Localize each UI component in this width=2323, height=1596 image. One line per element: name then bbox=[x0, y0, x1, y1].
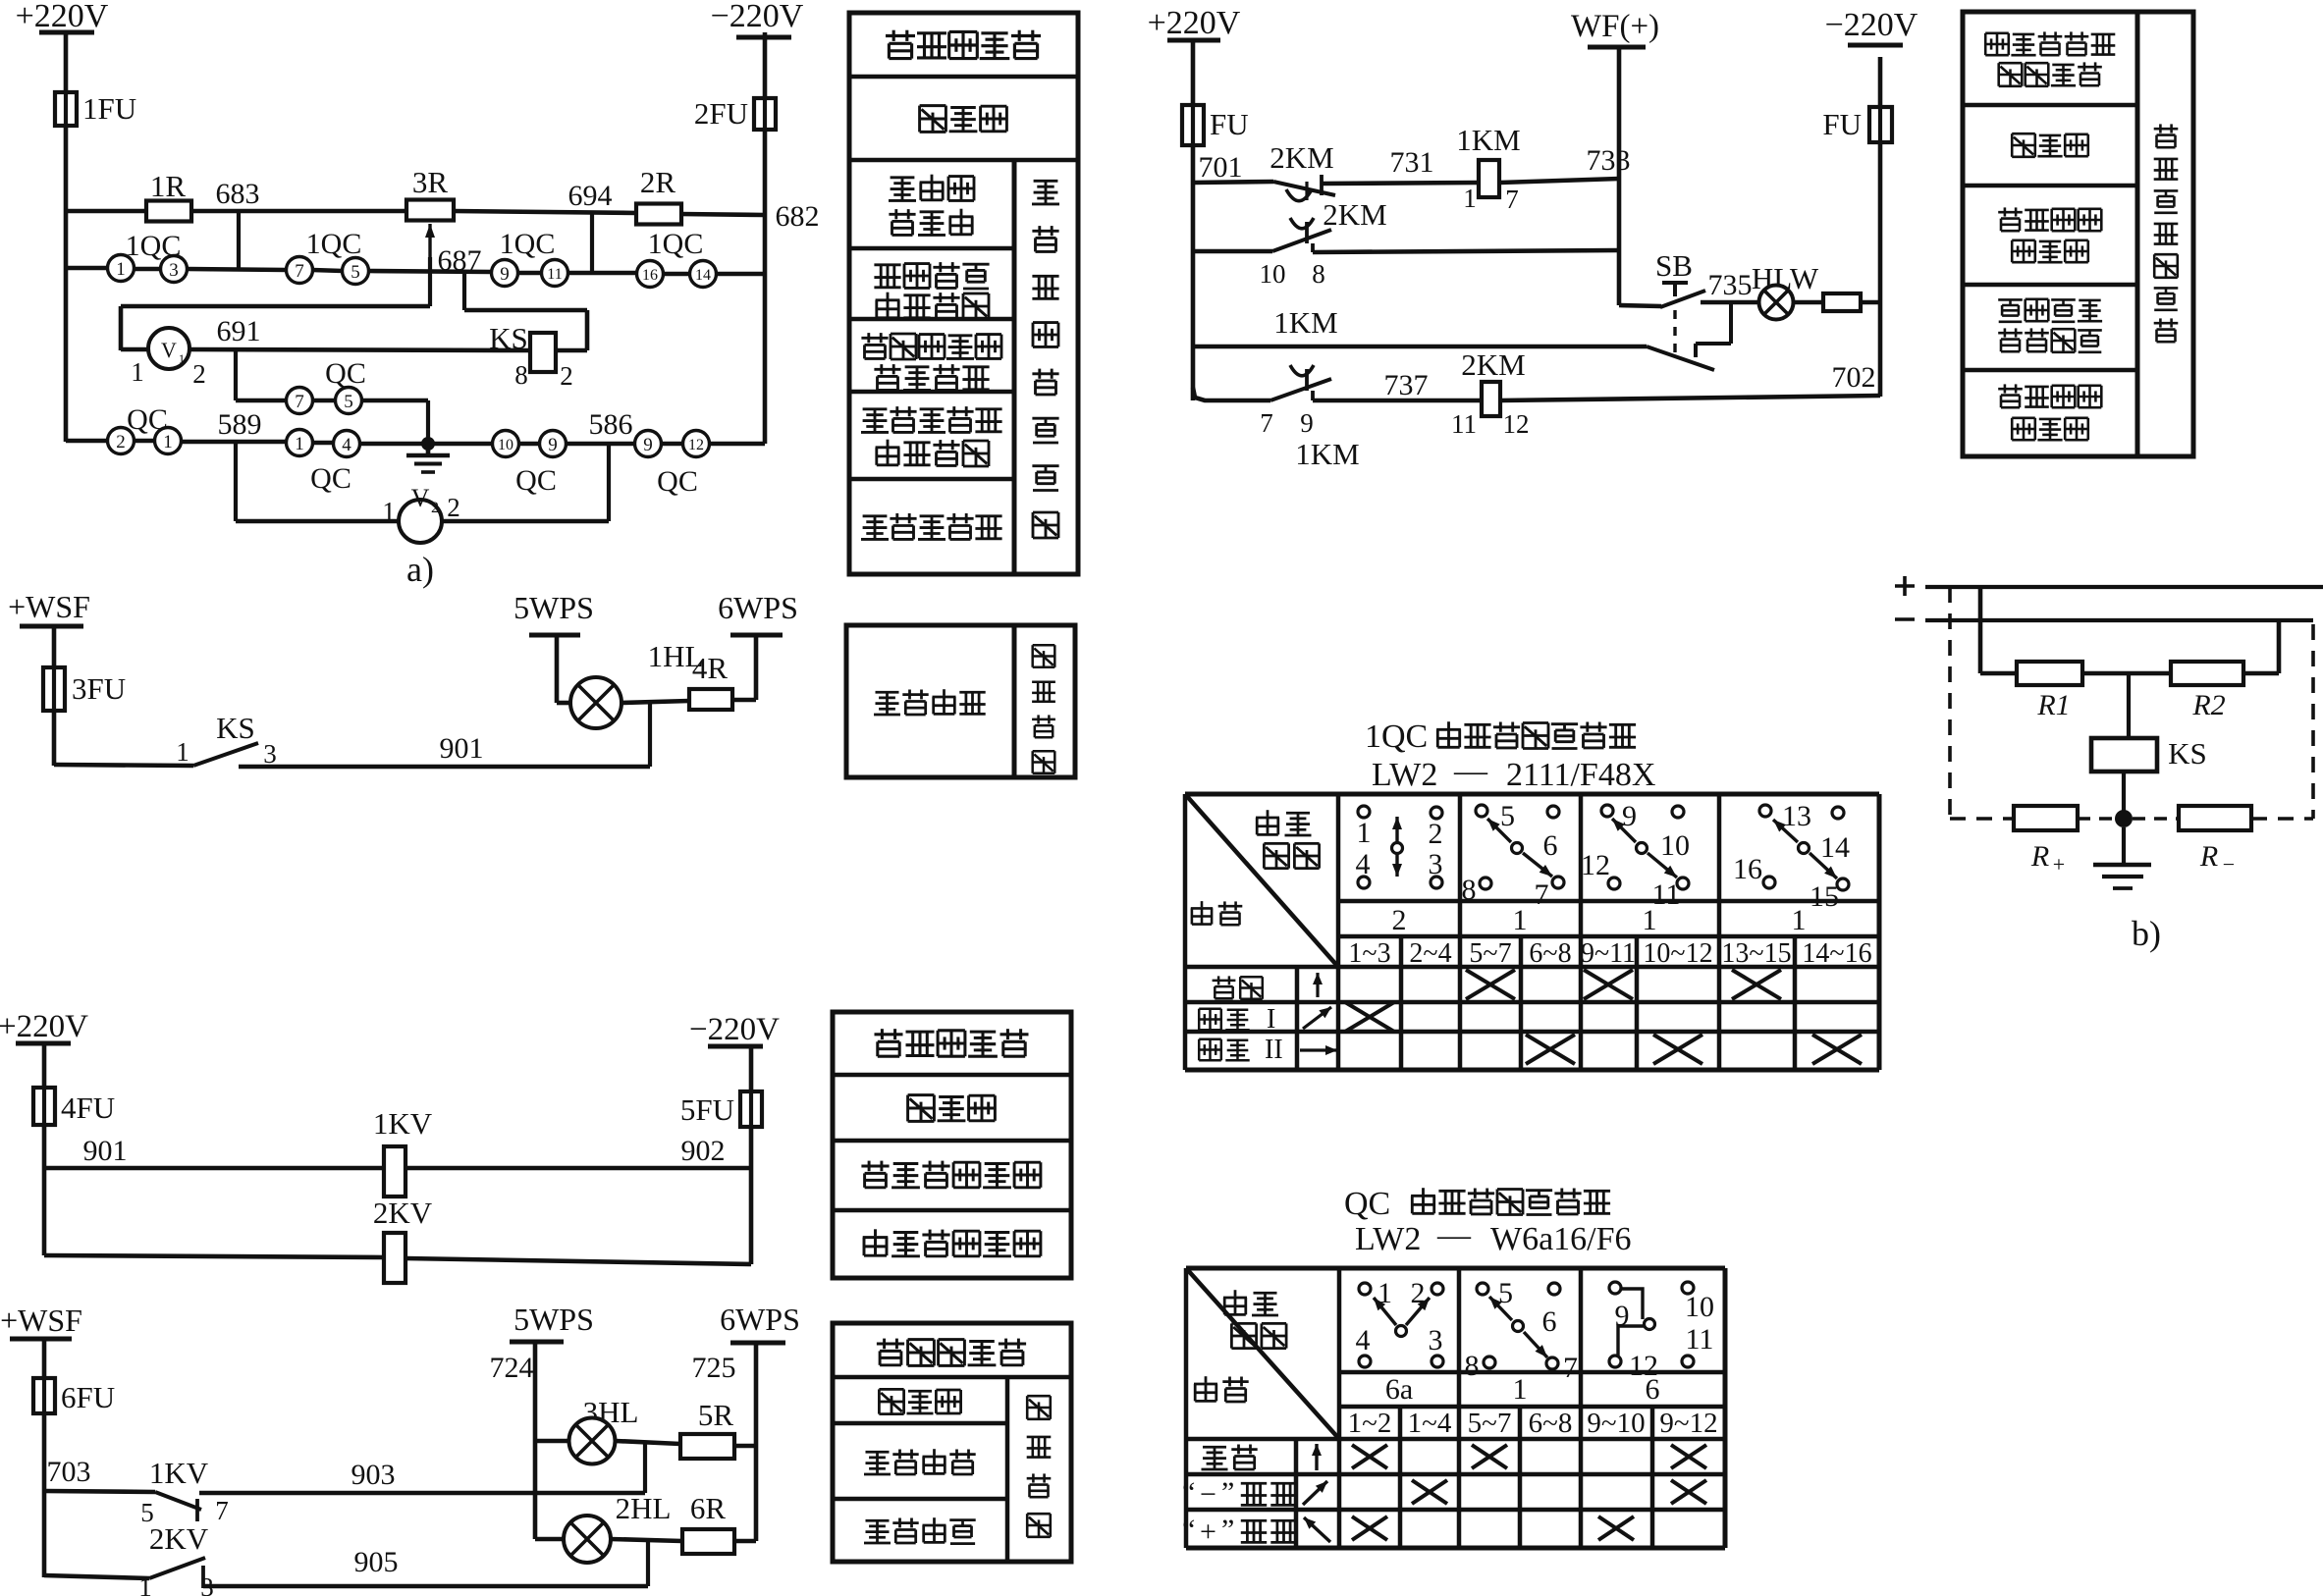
svg-text:1~2: 1~2 bbox=[1348, 1408, 1392, 1439]
wire 691 to QC contact 7 bbox=[236, 350, 287, 400]
node +220V bus (KV circuit) bbox=[0, 1009, 88, 1044]
switch contact 1QC 7 bbox=[287, 257, 313, 284]
svg-text:3FU: 3FU bbox=[72, 671, 126, 706]
svg-text:16: 16 bbox=[1733, 853, 1762, 885]
contact SB lower (NC) bbox=[1647, 346, 1714, 370]
wire rail 2KV bbox=[44, 1255, 751, 1264]
svg-text:1: 1 bbox=[1643, 904, 1657, 936]
contact 1KM (7-9) bbox=[1260, 365, 1359, 471]
svg-text:1: 1 bbox=[1357, 817, 1372, 849]
relay KS (circuit b) bbox=[2091, 736, 2207, 771]
node 586 bbox=[589, 408, 633, 521]
wire 903 junction vertical (3HL) bbox=[643, 1443, 647, 1493]
svg-text:11: 11 bbox=[1686, 1323, 1714, 1356]
svg-text:2~4: 2~4 bbox=[1409, 938, 1451, 969]
svg-text:SB: SB bbox=[1655, 248, 1693, 283]
table: DC main bus / undervoltage / overvoltage legend bbox=[833, 1012, 1071, 1278]
contact 2KM (NO, rail 701) bbox=[1270, 140, 1335, 201]
svg-text:5: 5 bbox=[1500, 800, 1515, 832]
table: DC panel flashing device legend bbox=[1963, 12, 2193, 456]
svg-text:KS: KS bbox=[2168, 736, 2207, 771]
svg-text:LW2: LW2 bbox=[1372, 757, 1437, 793]
wire rail 5 (7-9-737-702 bottom) bbox=[1193, 388, 1880, 400]
voltmeter V1 bbox=[131, 328, 206, 389]
node 687 bbox=[438, 244, 482, 277]
svg-text:5~7: 5~7 bbox=[1468, 1408, 1512, 1439]
svg-text:2KV: 2KV bbox=[373, 1196, 433, 1230]
switch contact QC 10 bbox=[493, 431, 519, 457]
svg-text:+: + bbox=[2053, 852, 2065, 877]
svg-text:13: 13 bbox=[1782, 800, 1811, 832]
wire rail 683-694-682 (circuit a top rail) bbox=[66, 211, 765, 215]
svg-text:9~12: 9~12 bbox=[1659, 1408, 1717, 1439]
svg-text:1: 1 bbox=[138, 1572, 152, 1596]
wire rail 905 bbox=[44, 1546, 648, 1586]
resistor 1R bbox=[146, 169, 191, 222]
node 6WPS bus (upper) bbox=[718, 590, 798, 635]
svg-text:10: 10 bbox=[1260, 259, 1286, 289]
svg-text:LW2: LW2 bbox=[1355, 1221, 1421, 1257]
svg-text:—: — bbox=[1436, 1217, 1472, 1253]
svg-text:5: 5 bbox=[344, 392, 353, 412]
wire rail 701-731-733 bbox=[1193, 179, 1619, 184]
svg-text:1: 1 bbox=[179, 351, 186, 366]
svg-text:7: 7 bbox=[215, 1496, 229, 1525]
wire +220V vertical feeder (circuit a) bbox=[64, 32, 69, 442]
wire 6R to 725 vertical bbox=[734, 1539, 756, 1544]
svg-text:9: 9 bbox=[1300, 408, 1314, 438]
svg-text:5R: 5R bbox=[698, 1398, 734, 1432]
svg-text:3: 3 bbox=[1429, 848, 1443, 880]
contact group 13-15 diagram (1QC table) bbox=[1733, 800, 1850, 913]
svg-text:12: 12 bbox=[1581, 849, 1610, 881]
table: 1QC changeover switch worktable bbox=[1185, 718, 1879, 1070]
svg-text:6~8: 6~8 bbox=[1529, 1408, 1573, 1439]
table: signal bus / voltage low / voltage high legend bbox=[833, 1323, 1071, 1562]
svg-text:W6a16/F6: W6a16/F6 bbox=[1490, 1221, 1632, 1257]
relay coil 2KM (rail 737) bbox=[1451, 347, 1530, 439]
wire 3HL row bbox=[535, 1441, 680, 1444]
contact group 1-4/2-3 diagram (1QC table) bbox=[1356, 806, 1443, 888]
svg-text:1QC: 1QC bbox=[648, 228, 704, 260]
svg-text:1KM: 1KM bbox=[1456, 123, 1520, 157]
switch contact 1QC 14 bbox=[648, 228, 717, 288]
svg-text:9: 9 bbox=[500, 264, 510, 285]
contact 2KM (10-8) bbox=[1260, 197, 1387, 289]
wire 5R to 725 vertical bbox=[734, 1444, 756, 1449]
svg-text:QC: QC bbox=[127, 403, 168, 436]
svg-text:1~3: 1~3 bbox=[1348, 938, 1390, 969]
svg-text:9~11: 9~11 bbox=[1581, 938, 1636, 969]
svg-text:1: 1 bbox=[176, 737, 189, 767]
svg-text:5WPS: 5WPS bbox=[513, 1302, 594, 1337]
signal lamp HLW bbox=[1752, 261, 1819, 320]
node - rail (circuit b) bbox=[1895, 619, 2313, 620]
svg-text:10: 10 bbox=[498, 437, 513, 453]
resistor (HLW series) bbox=[1823, 293, 1861, 311]
svg-text:6FU: 6FU bbox=[61, 1380, 115, 1414]
wire -220V vertical feeder (KV circuit) bbox=[749, 1046, 754, 1264]
svg-text:903: 903 bbox=[351, 1459, 396, 1491]
svg-text:902: 902 bbox=[681, 1135, 726, 1167]
table: bus ground - forecast signal bbox=[846, 625, 1075, 777]
wire 901 to 1HL junction bbox=[648, 703, 652, 767]
svg-text:6: 6 bbox=[1543, 829, 1558, 862]
svg-text:2R: 2R bbox=[640, 165, 676, 199]
svg-text:1: 1 bbox=[295, 434, 304, 454]
contact group 1-2 V diagram (QC table) bbox=[1356, 1277, 1444, 1367]
svg-text:−: − bbox=[2223, 852, 2235, 877]
wire rail 901-902 bbox=[44, 1166, 751, 1171]
svg-text:12: 12 bbox=[1503, 409, 1530, 439]
svg-text:14~16: 14~16 bbox=[1802, 938, 1871, 969]
node -220V bus (KV circuit) bbox=[689, 1012, 780, 1047]
contact pair subheader row (QC table) bbox=[1348, 1408, 1718, 1439]
fuse 3FU bbox=[43, 667, 126, 711]
svg-text:5: 5 bbox=[1498, 1277, 1513, 1309]
svg-text:6R: 6R bbox=[690, 1491, 727, 1525]
wire rail 2 (2KM contact 10-8) bbox=[1193, 250, 1619, 252]
svg-text:8: 8 bbox=[1465, 1350, 1480, 1382]
table: QC changeover switch worktable bbox=[1186, 1186, 1725, 1548]
svg-text:FU: FU bbox=[1210, 107, 1249, 141]
svg-text:2: 2 bbox=[560, 361, 573, 391]
svg-text:4: 4 bbox=[1356, 1324, 1371, 1357]
svg-text:V: V bbox=[161, 338, 177, 362]
contact 1KV (5-7) bbox=[140, 1456, 229, 1527]
svg-text:703: 703 bbox=[47, 1456, 91, 1488]
fuse FU (positive, flash circuit) bbox=[1182, 105, 1249, 145]
svg-text:14: 14 bbox=[695, 267, 711, 284]
svg-text:589: 589 bbox=[218, 408, 262, 441]
svg-text:3: 3 bbox=[169, 260, 179, 281]
wire 2HL row bbox=[535, 1539, 682, 1541]
svg-text:1R: 1R bbox=[150, 169, 187, 203]
svg-text:9: 9 bbox=[548, 435, 558, 455]
svg-text:1: 1 bbox=[131, 357, 144, 387]
svg-text:724: 724 bbox=[490, 1352, 534, 1384]
switch contact 1QC 9 bbox=[492, 260, 518, 287]
svg-text:1QC: 1QC bbox=[306, 228, 362, 260]
svg-text:a): a) bbox=[406, 550, 434, 589]
node -220V bus (circuit a) bbox=[711, 0, 804, 37]
switch contact QC 7 (upper) bbox=[287, 388, 313, 414]
dashed frame left (circuit b) bbox=[1948, 587, 1952, 819]
svg-text:5: 5 bbox=[351, 262, 360, 283]
svg-text:691: 691 bbox=[217, 315, 261, 347]
svg-text:R: R bbox=[2199, 840, 2218, 873]
svg-text:3: 3 bbox=[200, 1572, 214, 1596]
svg-text:”: ” bbox=[1221, 1476, 1234, 1509]
ground (circuit b) bbox=[2093, 827, 2151, 888]
svg-text:4: 4 bbox=[1356, 848, 1371, 880]
relay coil 2KV bbox=[373, 1196, 433, 1283]
svg-text:2KM: 2KM bbox=[1323, 197, 1386, 232]
svg-text:+220V: +220V bbox=[1148, 5, 1241, 41]
svg-text:I: I bbox=[1267, 1004, 1275, 1035]
wire +WSF vertical feeder (signal circuit) bbox=[42, 1339, 47, 1577]
voltmeter V2 bbox=[382, 484, 460, 543]
switch contact 1QC 5 bbox=[306, 228, 369, 285]
svg-text:FU: FU bbox=[1822, 107, 1862, 141]
switch contact QC 5 (upper) bbox=[312, 357, 366, 414]
svg-text:1: 1 bbox=[1513, 904, 1528, 936]
resistor 6R bbox=[682, 1491, 734, 1554]
relay coil 1KV bbox=[373, 1106, 433, 1197]
svg-text:9: 9 bbox=[1622, 800, 1637, 832]
switch contact QC 2 bbox=[108, 428, 135, 454]
svg-text:683: 683 bbox=[216, 178, 260, 210]
wire rail 3 (SB to HLW) bbox=[1619, 302, 1880, 306]
svg-text:687: 687 bbox=[438, 244, 482, 277]
svg-text:+WSF: +WSF bbox=[0, 1303, 82, 1338]
junction 735 step to SB lower contact bbox=[1696, 302, 1731, 357]
header labels (QC table) bbox=[1194, 1290, 1286, 1402]
svg-text:701: 701 bbox=[1199, 151, 1243, 184]
contact group 9-11 diagram (1QC table) bbox=[1581, 800, 1690, 911]
svg-text:731: 731 bbox=[1390, 146, 1434, 179]
svg-text:4FU: 4FU bbox=[61, 1091, 115, 1125]
row minus-to-ground (QC table) bbox=[1182, 1476, 1706, 1511]
svg-text:6a: 6a bbox=[1385, 1373, 1413, 1406]
table: bus insulation monitoring circuit legend bbox=[849, 13, 1078, 574]
svg-text:KS: KS bbox=[489, 321, 528, 355]
switch contact 1QC 1 bbox=[108, 255, 135, 282]
wire +220V vertical feeder (flash circuit) bbox=[1191, 40, 1196, 400]
svg-text:QC: QC bbox=[657, 465, 698, 498]
switch contact QC 12 bbox=[657, 431, 709, 499]
node + rail (circuit b) bbox=[1895, 576, 2323, 596]
svg-text:3: 3 bbox=[263, 739, 277, 769]
wire 724 vertical (5WPS feeder) bbox=[533, 1342, 538, 1539]
signal lamp 3HL bbox=[569, 1395, 639, 1464]
svg-text:−220V: −220V bbox=[1825, 7, 1918, 43]
wire R2 to - rail (circuit b) bbox=[2243, 620, 2279, 673]
svg-text:725: 725 bbox=[692, 1352, 736, 1384]
svg-text:1~4: 1~4 bbox=[1408, 1408, 1452, 1439]
svg-text:2: 2 bbox=[1392, 904, 1407, 936]
svg-text:586: 586 bbox=[589, 408, 633, 441]
contact pair subheader row (1QC table) bbox=[1348, 938, 1871, 969]
svg-text:2KM: 2KM bbox=[1461, 347, 1525, 382]
wire V2 measuring loop bbox=[236, 519, 609, 524]
node 6WPS bus (signal circuit) bbox=[720, 1302, 800, 1343]
contact 2KV (1-3) bbox=[138, 1521, 214, 1596]
signal relay KS (circuit a) bbox=[489, 321, 587, 391]
node 5WPS bus (signal circuit) bbox=[510, 1302, 594, 1342]
svg-text:WF(+): WF(+) bbox=[1571, 9, 1659, 44]
svg-text:11: 11 bbox=[547, 266, 562, 283]
svg-text:+WSF: +WSF bbox=[8, 589, 90, 624]
wire 725 vertical (6WPS feeder) bbox=[754, 1343, 759, 1541]
svg-text:682: 682 bbox=[776, 200, 820, 233]
svg-text:”: ” bbox=[1221, 1514, 1234, 1546]
svg-text:KS: KS bbox=[216, 711, 255, 745]
row measure I (1QC table) bbox=[1199, 1002, 1394, 1035]
switch contact QC 4 bbox=[310, 431, 359, 496]
wire V1 to KS (node 691) bbox=[121, 315, 530, 350]
dashed frame right (circuit b) bbox=[2311, 624, 2315, 819]
svg-text:2HL: 2HL bbox=[616, 1491, 672, 1525]
svg-text:10~12: 10~12 bbox=[1643, 938, 1712, 969]
wire 1HL to 4R bbox=[621, 701, 689, 703]
switch contact 1QC 16 bbox=[637, 261, 664, 288]
svg-text:1KM: 1KM bbox=[1273, 305, 1337, 340]
switch contact QC 9 (second) bbox=[635, 431, 662, 457]
node 589 bbox=[218, 408, 262, 521]
svg-text:16: 16 bbox=[642, 267, 658, 284]
svg-text:7: 7 bbox=[1563, 1352, 1578, 1384]
svg-text:8: 8 bbox=[1312, 259, 1325, 289]
node WF(+) bus bbox=[1571, 9, 1659, 47]
svg-text:694: 694 bbox=[568, 180, 613, 212]
svg-text:−220V: −220V bbox=[711, 0, 804, 34]
svg-text:1: 1 bbox=[382, 497, 396, 526]
svg-text:“: “ bbox=[1182, 1476, 1195, 1509]
svg-text:5~7: 5~7 bbox=[1469, 938, 1511, 969]
svg-text:737: 737 bbox=[1384, 369, 1429, 401]
svg-text:6: 6 bbox=[1646, 1373, 1660, 1406]
resistor R1 bbox=[2017, 662, 2082, 721]
wire rail 703-903 bbox=[44, 1491, 645, 1493]
wire -220V vertical feeder (circuit a) bbox=[763, 32, 768, 444]
node -220V bus (flash circuit) bbox=[1825, 7, 1918, 45]
svg-text:b): b) bbox=[2132, 914, 2161, 953]
svg-text:2111/F48X: 2111/F48X bbox=[1506, 757, 1655, 793]
contact group 5-7 diagram (QC table) bbox=[1465, 1277, 1579, 1384]
svg-text:+220V: +220V bbox=[16, 0, 109, 34]
node +WSF bus bbox=[8, 589, 90, 626]
switch contact QC 1 (second) bbox=[287, 430, 313, 456]
wire 1QC contact row (circuit a) bbox=[66, 268, 765, 274]
node +WSF bus (signal circuit) bbox=[0, 1303, 82, 1339]
svg-text:6: 6 bbox=[1542, 1305, 1557, 1338]
svg-text:901: 901 bbox=[440, 732, 484, 765]
svg-text:II: II bbox=[1265, 1035, 1283, 1065]
svg-text:1: 1 bbox=[116, 259, 126, 280]
position numbers row (QC table) bbox=[1385, 1373, 1660, 1406]
signal lamp 1HL bbox=[570, 639, 703, 728]
svg-text:14: 14 bbox=[1820, 831, 1850, 864]
fuse FU (negative, flash circuit) bbox=[1822, 107, 1892, 142]
svg-text:1: 1 bbox=[1792, 904, 1807, 936]
wire QC row 2 (circuit a bottom row) bbox=[66, 441, 765, 444]
switch contact QC 1 bbox=[127, 403, 181, 454]
node 694 bbox=[568, 180, 613, 273]
junction node (circuit b) bbox=[2115, 810, 2133, 827]
dashed link to R+ (circuit b) bbox=[1950, 817, 2014, 821]
svg-text:QC: QC bbox=[515, 464, 557, 497]
contact group 9-12 diagram (QC table) bbox=[1609, 1282, 1714, 1382]
wire 3R wiper to V1/KS loop bbox=[121, 257, 430, 350]
svg-text:7: 7 bbox=[1535, 878, 1549, 911]
svg-text:9: 9 bbox=[643, 435, 653, 455]
wire 905 junction vertical (2HL) bbox=[646, 1541, 650, 1586]
svg-text:7: 7 bbox=[295, 392, 304, 412]
dashed link R+ to junction (circuit b) bbox=[2078, 817, 2115, 821]
svg-text:R2: R2 bbox=[2191, 689, 2225, 721]
svg-text:1QC: 1QC bbox=[500, 228, 556, 260]
node 683 bbox=[216, 178, 260, 270]
push button SB bbox=[1655, 248, 1705, 353]
node +220V bus (flash circuit) bbox=[1148, 5, 1241, 41]
svg-text:2: 2 bbox=[431, 500, 439, 516]
node +220V bus (circuit a) bbox=[16, 0, 109, 34]
fuse 4FU bbox=[33, 1088, 115, 1125]
switch contact 1QC 11 bbox=[500, 228, 568, 287]
svg-text:4: 4 bbox=[342, 435, 351, 455]
contact KS (1-3) bbox=[176, 711, 277, 769]
svg-text:2: 2 bbox=[447, 493, 460, 522]
svg-text:V: V bbox=[411, 484, 430, 512]
svg-text:−: − bbox=[1200, 1478, 1216, 1511]
svg-text:13~15: 13~15 bbox=[1721, 938, 1791, 969]
relay coil 1KM (rail 731) bbox=[1456, 123, 1520, 214]
svg-text:733: 733 bbox=[1587, 144, 1631, 177]
svg-text:QC: QC bbox=[310, 462, 351, 495]
svg-text:735: 735 bbox=[1708, 269, 1753, 301]
resistor R2 bbox=[2171, 662, 2243, 721]
svg-text:R: R bbox=[2030, 840, 2049, 873]
svg-text:“: “ bbox=[1182, 1514, 1195, 1546]
dashed link junction to R- (circuit b) bbox=[2133, 817, 2179, 821]
svg-text:901: 901 bbox=[83, 1135, 128, 1167]
switch contact QC 9 bbox=[515, 431, 566, 498]
wire + feed to R1 (circuit b) bbox=[1980, 587, 2017, 673]
wire R1-R2 junction (circuit b) bbox=[2082, 671, 2171, 676]
contact group 5-7 diagram (1QC table) bbox=[1462, 800, 1565, 911]
svg-text:4R: 4R bbox=[692, 651, 729, 685]
fuse 1FU bbox=[55, 91, 136, 126]
svg-text:1KV: 1KV bbox=[149, 1456, 209, 1490]
svg-text:8: 8 bbox=[514, 360, 528, 390]
svg-text:2: 2 bbox=[192, 359, 206, 389]
wire junction to KS coil (circuit b) bbox=[2127, 673, 2131, 738]
svg-text:5WPS: 5WPS bbox=[513, 590, 594, 625]
svg-text:2KV: 2KV bbox=[149, 1521, 209, 1556]
svg-text:7: 7 bbox=[1505, 185, 1519, 214]
junction ground node (circuit a) bbox=[421, 437, 435, 451]
svg-text:15: 15 bbox=[1810, 880, 1839, 913]
svg-text:10: 10 bbox=[1660, 829, 1690, 862]
resistor 2R bbox=[636, 165, 681, 225]
node 5WPS bus (upper) bbox=[513, 590, 594, 635]
svg-text:1QC: 1QC bbox=[126, 230, 182, 262]
wire rail 4 (1KM self-hold) bbox=[1193, 305, 1647, 346]
svg-text:3: 3 bbox=[1429, 1324, 1443, 1357]
svg-text:1QC: 1QC bbox=[1365, 718, 1428, 755]
wire WF(+) vertical bbox=[1617, 47, 1622, 305]
svg-text:+: + bbox=[1200, 1516, 1216, 1548]
row plus-to-ground (QC table) bbox=[1182, 1514, 1634, 1548]
potentiometer 3R bbox=[406, 165, 454, 257]
wire KS to center junction (circuit b) bbox=[2122, 771, 2126, 819]
svg-text:7: 7 bbox=[295, 261, 304, 282]
wire +WSF vertical feeder bbox=[52, 626, 57, 766]
svg-text:2: 2 bbox=[116, 432, 126, 452]
resistor 5R bbox=[680, 1398, 734, 1459]
switch contact 1QC 3 bbox=[126, 230, 188, 283]
svg-text:702: 702 bbox=[1832, 361, 1876, 394]
row measure II (1QC table) bbox=[1199, 1035, 1862, 1065]
resistor 4R bbox=[689, 651, 732, 710]
wire 4R to 6WPS bbox=[732, 635, 756, 700]
resistor R- bbox=[2179, 806, 2251, 877]
wire KS contact row (node 901) bbox=[54, 732, 650, 767]
svg-text:1KM: 1KM bbox=[1295, 437, 1359, 471]
svg-text:6WPS: 6WPS bbox=[718, 590, 798, 625]
svg-text:QC: QC bbox=[325, 357, 366, 390]
